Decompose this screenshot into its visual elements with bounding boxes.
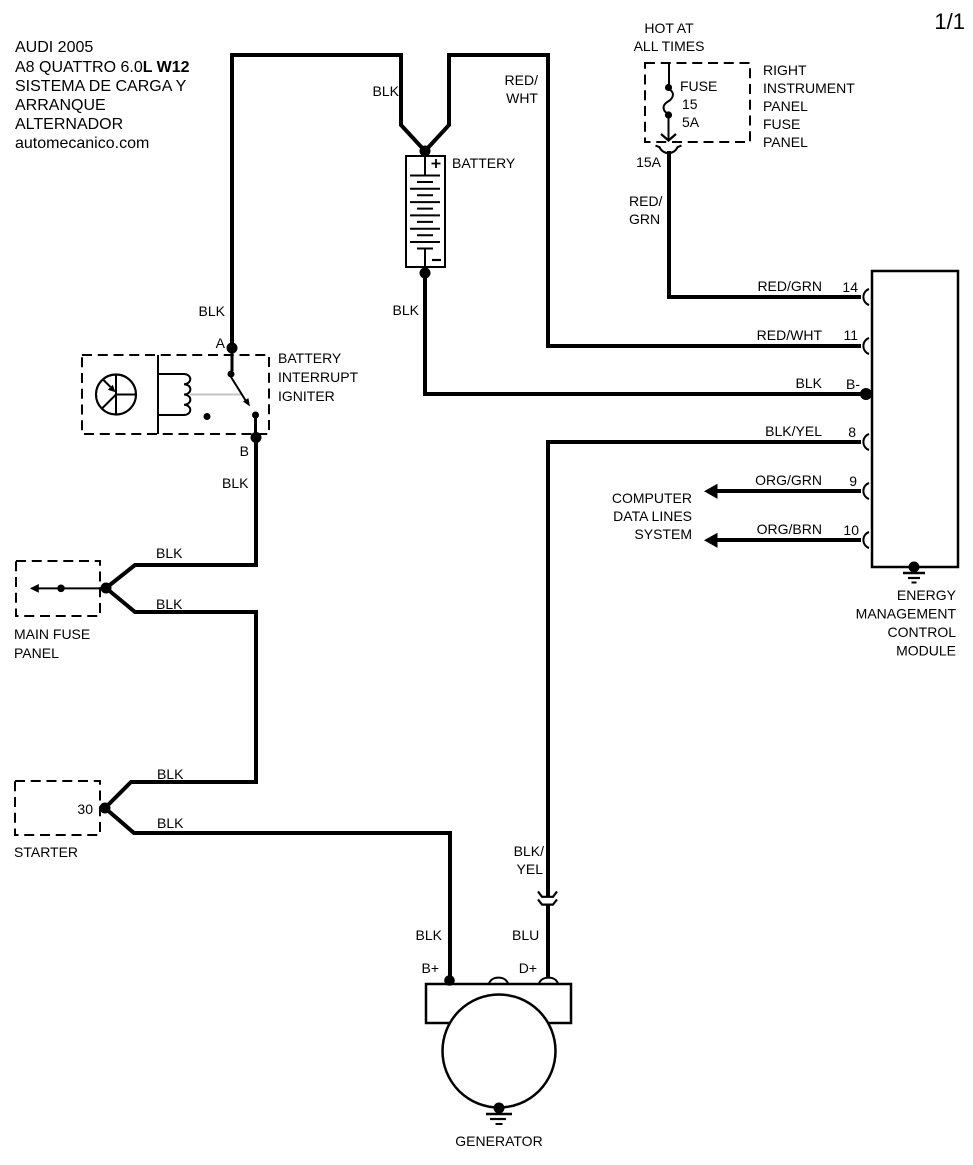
svg-text:BLK: BLK: [156, 596, 183, 612]
label FUSE 15 5A: [680, 78, 717, 130]
generator middle connector bump: [489, 978, 509, 985]
svg-text:ALTERNADOR: ALTERNADOR: [15, 116, 123, 133]
label RED/ GRN: [629, 193, 663, 227]
svg-text:10: 10: [843, 522, 859, 538]
svg-text:ARRANQUE: ARRANQUE: [15, 97, 106, 114]
igniter inner dot: [204, 413, 211, 420]
svg-text:D+: D+: [519, 960, 537, 976]
node B+ terminal: [444, 975, 455, 986]
svg-text:INTERRUPT: INTERRUPT: [278, 369, 359, 385]
svg-text:STARTER: STARTER: [14, 844, 78, 860]
svg-text:5A: 5A: [682, 114, 700, 130]
svg-text:RED/: RED/: [629, 193, 663, 209]
wire BLU connector to generator D+: [546, 904, 550, 978]
main fuse panel arrow lead: [30, 584, 103, 593]
main fuse panel dashed box: [16, 561, 100, 616]
svg-text:A8 QUATTRO 6.0L W12: A8 QUATTRO 6.0L W12: [15, 59, 190, 76]
node starter junction: [100, 803, 111, 814]
svg-text:ALL TIMES: ALL TIMES: [634, 38, 705, 54]
svg-text:FUSE: FUSE: [763, 116, 800, 132]
starter dashed box: [15, 781, 100, 835]
svg-text:automecanico.com: automecanico.com: [15, 135, 149, 152]
label BLK/ YEL: [514, 843, 544, 877]
svg-text:SISTEMA DE CARGA Y: SISTEMA DE CARGA Y: [15, 78, 187, 95]
wire ORG/GRN computer data lines: [704, 484, 861, 499]
generator: [426, 984, 571, 1108]
igniter coil: [158, 374, 190, 415]
svg-text:1/1: 1/1: [934, 9, 965, 34]
svg-text:30: 30: [77, 801, 93, 817]
svg-text:ENERGY: ENERGY: [897, 587, 957, 603]
svg-text:HOT AT: HOT AT: [644, 20, 694, 36]
svg-text:GRN: GRN: [629, 211, 660, 227]
generator ground: [486, 1103, 512, 1125]
coil link line (gray): [190, 394, 241, 396]
svg-text:RED/: RED/: [505, 72, 539, 88]
wire RED/GRN fuse to module pin 14: [669, 151, 861, 297]
pin 10 connector: [863, 532, 869, 548]
generator D+ connector bump: [539, 978, 559, 985]
wire row labels: [755, 278, 823, 537]
svg-text:RED/WHT: RED/WHT: [757, 327, 823, 343]
svg-text:COMPUTER: COMPUTER: [612, 490, 692, 506]
wire BLK main fuse panel to starter 30: [105, 588, 256, 808]
svg-text:RED/GRN: RED/GRN: [757, 278, 822, 294]
title block: [15, 39, 190, 152]
igniter squib symbol: [96, 375, 136, 415]
wire BLK battery negative to module B-: [425, 273, 864, 394]
svg-text:MANAGEMENT: MANAGEMENT: [856, 606, 957, 622]
energy management control module box: [872, 271, 958, 567]
svg-text:DATA LINES: DATA LINES: [613, 508, 692, 524]
wire ORG/BRN computer data lines: [704, 533, 861, 548]
label COMPUTER DATA LINES SYSTEM: [612, 490, 692, 542]
svg-text:BLK: BLK: [796, 375, 823, 391]
svg-text:BLK: BLK: [157, 766, 184, 782]
wire BLK igniter B to main fuse panel junction: [106, 438, 256, 589]
node B: [251, 432, 262, 443]
svg-text:YEL: YEL: [517, 861, 544, 877]
svg-text:BLK/YEL: BLK/YEL: [765, 423, 822, 439]
node A: [227, 343, 238, 354]
pin numbers: [842, 279, 860, 538]
svg-text:WHT: WHT: [506, 90, 538, 106]
node battery positive junction: [420, 146, 431, 157]
svg-text:MAIN FUSE: MAIN FUSE: [14, 626, 90, 642]
svg-text:15: 15: [682, 96, 698, 112]
fuse 15 5A: [661, 63, 676, 141]
svg-text:11: 11: [843, 327, 858, 343]
svg-text:ORG/GRN: ORG/GRN: [755, 472, 822, 488]
svg-text:MODULE: MODULE: [896, 643, 956, 659]
label MAIN FUSE PANEL: [14, 626, 90, 661]
svg-text:15A: 15A: [636, 154, 662, 170]
svg-text:B: B: [240, 443, 249, 459]
svg-text:CONTROL: CONTROL: [888, 624, 957, 640]
label HOT AT ALL TIMES: [634, 20, 705, 54]
wire BLK battery positive left branch: [232, 55, 425, 350]
svg-text:PANEL: PANEL: [14, 645, 59, 661]
svg-text:8: 8: [848, 424, 856, 440]
node main fuse panel junction: [101, 583, 112, 594]
label ENERGY MANAGEMENT CONTROL MODULE: [856, 587, 957, 659]
svg-text:FUSE: FUSE: [680, 78, 717, 94]
connector below fuse: [656, 146, 682, 154]
svg-text:9: 9: [849, 473, 857, 489]
svg-text:BATTERY: BATTERY: [278, 350, 342, 366]
igniter divider line: [157, 355, 159, 434]
fuse panel dashed box: [645, 63, 750, 142]
svg-text:BLU: BLU: [512, 927, 539, 943]
svg-text:BLK: BLK: [156, 545, 183, 561]
pin 9 connector: [863, 483, 869, 499]
svg-text:ORG/BRN: ORG/BRN: [757, 521, 822, 537]
svg-text:BLK: BLK: [373, 83, 400, 99]
svg-text:RIGHT: RIGHT: [763, 62, 807, 78]
svg-text:PANEL: PANEL: [763, 134, 808, 150]
label RED/ WHT: [505, 72, 539, 106]
svg-text:BATTERY: BATTERY: [452, 155, 516, 171]
svg-text:BLK: BLK: [199, 303, 226, 319]
pin 8 connector: [863, 434, 869, 450]
node B- junction on module: [860, 388, 872, 400]
svg-text:BLK/: BLK/: [514, 843, 544, 859]
battery interrupt igniter dashed box: [82, 355, 269, 434]
svg-text:BLK: BLK: [416, 927, 443, 943]
label RIGHT INSTRUMENT PANEL FUSE PANEL: [763, 62, 855, 150]
svg-text:BLK: BLK: [393, 302, 420, 318]
svg-text:BLK: BLK: [222, 475, 249, 491]
svg-text:SYSTEM: SYSTEM: [634, 526, 692, 542]
svg-text:IGNITER: IGNITER: [278, 388, 335, 404]
wire BLK/YEL module pin 8 to generator D+: [548, 442, 861, 897]
svg-text:B-: B-: [846, 376, 860, 392]
svg-text:BLK: BLK: [157, 815, 184, 831]
svg-text:B+: B+: [421, 960, 439, 976]
svg-text:14: 14: [842, 279, 858, 295]
node battery negative junction: [420, 268, 431, 279]
wire RED/WHT battery positive right branch to module pin 11: [425, 55, 861, 346]
wire BLK starter to generator B+: [105, 808, 450, 979]
svg-text:PANEL: PANEL: [763, 98, 808, 114]
svg-text:A: A: [216, 335, 226, 351]
battery: [406, 156, 445, 267]
inline connector on BLK/YEL wire: [538, 892, 557, 905]
svg-text:INSTRUMENT: INSTRUMENT: [763, 80, 855, 96]
pin 14 connector: [863, 289, 869, 305]
label BATTERY INTERRUPT IGNITER: [278, 350, 359, 404]
svg-text:AUDI 2005: AUDI 2005: [15, 39, 93, 56]
igniter switch: [228, 350, 260, 437]
module ground: [903, 562, 925, 583]
pin 11 connector: [863, 338, 869, 354]
svg-text:GENERATOR: GENERATOR: [455, 1133, 542, 1149]
